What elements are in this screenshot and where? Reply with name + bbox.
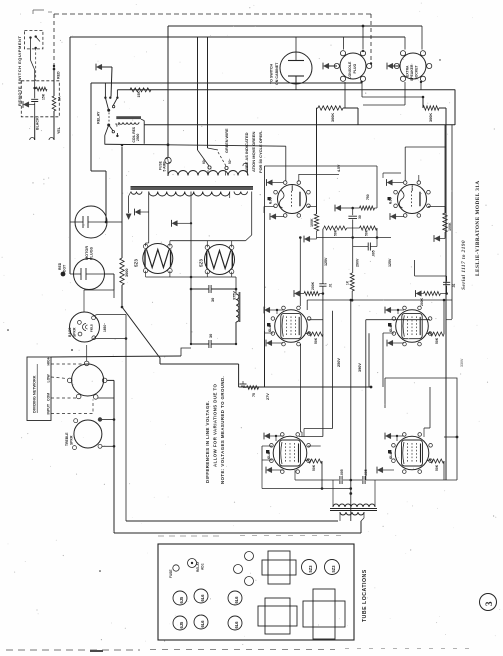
wire drop x197: [197, 37, 199, 150]
T1 5V lead down-arrow: [128, 196, 130, 213]
transformer T1 secondary: [149, 192, 230, 197]
wire bus x168: [167, 26, 169, 157]
wire y237 run: [317, 237, 392, 239]
coupling caps .005: [295, 479, 339, 481]
tube V3 6J5: [278, 185, 307, 214]
wire diagonal to y364: [122, 307, 160, 364]
scan mark top ticks: [33, 10, 44, 14]
socket 5Z3 B: [325, 560, 340, 575]
svg-text:30: 30: [209, 334, 213, 338]
remote switch contacts: [29, 36, 31, 38]
svg-text:50K: 50K: [314, 337, 318, 344]
svg-text:NOTE: VOLTAGES MEASURED TO GRO: NOTE: VOLTAGES MEASURED TO GROUND.: [220, 376, 225, 484]
svg-text:5A: 5A: [58, 96, 62, 101]
wire relay to bus: [144, 124, 455, 126]
socket 6L6 B: [194, 615, 208, 629]
svg-text:750: 750: [366, 194, 370, 200]
output transformer T2 secondary: [340, 512, 364, 515]
tube V6 6L6: [396, 310, 429, 343]
dashed links to network: [51, 363, 84, 365]
svg-text:ON CABINET: ON CABINET: [275, 62, 279, 85]
svg-text:15K: 15K: [137, 91, 141, 98]
svg-text:300K: 300K: [429, 113, 433, 122]
ground in remote box: [24, 102, 29, 107]
wire x322 down: [322, 299, 324, 437]
svg-text:4.5V: 4.5V: [337, 164, 341, 172]
relay coil: [116, 116, 141, 119]
screen resistor 50K UR: [429, 332, 444, 336]
svg-text:100K: 100K: [310, 218, 314, 227]
svg-text:5Z3: 5Z3: [134, 259, 139, 267]
wire fuse drop: [105, 143, 168, 146]
grid wire LL: [304, 428, 333, 430]
svg-text:DOT: DOT: [63, 264, 67, 272]
screen resistor 50K LL: [307, 459, 322, 463]
svg-text:YEL: YEL: [57, 126, 61, 134]
svg-text:6L6: 6L6: [234, 596, 239, 604]
paper speckle noise: [162, 99, 165, 102]
svg-text:TREBLE: TREBLE: [65, 432, 69, 446]
wire plug2 to bass: [104, 273, 114, 275]
svg-text:50K: 50K: [435, 337, 439, 344]
svg-text:DIVIDING NETWORK: DIVIDING NETWORK: [33, 375, 37, 413]
socket 6L6 D: [228, 616, 242, 630]
console plug pin fills: [360, 81, 362, 83]
wire crossover top: [86, 345, 88, 361]
extra speaker socket: [400, 53, 426, 79]
wire dashed AC mains run: [54, 13, 371, 15]
resistor 15K remote: [33, 87, 36, 90]
svg-text:15K: 15K: [42, 93, 46, 100]
wire bus y37: [70, 36, 405, 38]
svg-text:HIGH: HIGH: [46, 356, 50, 365]
svg-text:5Z3: 5Z3: [308, 565, 313, 573]
svg-text:50K: 50K: [365, 229, 369, 236]
bass speaker: [70, 312, 100, 342]
6L6LR wiring: [386, 433, 391, 438]
wire y299 screen run: [307, 299, 452, 301]
svg-text:30: 30: [358, 215, 362, 219]
svg-text:RED: RED: [58, 262, 62, 270]
svg-text:CONSOLE: CONSOLE: [348, 61, 352, 79]
svg-text:3: 3: [484, 601, 494, 606]
resistor 100K right: [444, 125, 446, 213]
rectifier V1 5Z3: [143, 244, 173, 274]
scan dashes above tube box: [158, 535, 220, 537]
svg-text:ATION MOVE GREEN: ATION MOVE GREEN: [251, 132, 256, 172]
svg-text:.005: .005: [372, 250, 376, 257]
T1 primary taps: [207, 170, 209, 175]
svg-text:.005: .005: [364, 469, 368, 476]
svg-text:BASS: BASS: [68, 327, 72, 337]
svg-text:ALLOW FOR VARIATIONS DUE TO: ALLOW FOR VARIATIONS DUE TO: [213, 383, 218, 467]
ground 75 resistor: [242, 381, 244, 384]
svg-text:RELAY: RELAY: [196, 561, 200, 572]
tube V7 6L6: [273, 436, 307, 470]
wire x91 branch: [90, 83, 92, 171]
socket 5Z3 A: [302, 560, 317, 575]
remote network box (dashed): [21, 81, 59, 117]
wire treble to bus: [102, 445, 114, 447]
power transformer footprint: [313, 589, 335, 639]
tube locations box: [158, 544, 354, 640]
ground arrow center tap: [172, 221, 177, 226]
wire x365 down: [365, 320, 367, 480]
resistor 300K right: [423, 106, 439, 110]
transformer T1 primary: [168, 171, 248, 176]
svg-text:TO SWITCH: TO SWITCH: [270, 63, 274, 84]
svg-text:100K: 100K: [448, 222, 452, 231]
svg-text:290V: 290V: [356, 258, 360, 267]
svg-text:TUBE LOCATIONS: TUBE LOCATIONS: [362, 569, 368, 622]
svg-text:200K: 200K: [420, 297, 424, 306]
wire bottom y521: [126, 520, 338, 522]
wire y364 run: [160, 363, 239, 365]
svg-text:5Z3: 5Z3: [331, 565, 336, 573]
svg-text:27V: 27V: [266, 393, 270, 400]
svg-text:Serial 1117 to 2190: Serial 1117 to 2190: [461, 240, 467, 290]
svg-text:REMOTE SWITCH EQUIPMENT: REMOTE SWITCH EQUIPMENT: [17, 36, 22, 106]
wire crossover right: [107, 379, 114, 381]
wire bus y26: [168, 25, 422, 27]
fuse holder: [173, 565, 179, 571]
6L6LL plate wire: [308, 445, 321, 447]
socket 6J5 B: [173, 616, 187, 630]
wire hook ends: [30, 138, 35, 141]
svg-text:2500: 2500: [136, 133, 140, 141]
wire y489 run: [262, 488, 351, 490]
6L6UL wiring: [265, 307, 270, 312]
green wire switch: [198, 150, 210, 166]
grid run LL upper: [299, 436, 323, 438]
svg-text:50K: 50K: [334, 229, 338, 236]
svg-text:250V: 250V: [337, 358, 341, 367]
scan speck left: [7, 329, 9, 331]
red dot: [61, 272, 66, 277]
svg-text:LESLIE-VIBRATONE MODEL 31A: LESLIE-VIBRATONE MODEL 31A: [475, 180, 481, 276]
choke L1: [235, 289, 237, 294]
output transformer footprint: [265, 598, 290, 634]
svg-text:200K: 200K: [311, 281, 315, 290]
wire x350 down: [350, 300, 352, 521]
svg-text:FIELD: FIELD: [90, 324, 94, 332]
transformer T1 5V winding: [131, 192, 142, 195]
wire y146 run: [168, 145, 286, 146]
speaker socket pin fills: [420, 81, 422, 83]
wire plug2 right: [104, 273, 114, 275]
svg-text:5 AMP: 5 AMP: [163, 161, 167, 172]
svg-text:PLUG: PLUG: [353, 64, 357, 74]
wire relay bus y83: [91, 82, 362, 84]
svg-text:.01: .01: [329, 283, 333, 288]
scan bottom edge dashes: [6, 649, 140, 651]
wire treble top link: [87, 398, 89, 420]
wire bass bottom-right: [96, 338, 127, 340]
svg-text:5Z3: 5Z3: [199, 259, 204, 267]
treble speaker: [74, 420, 102, 448]
RC to 6L6 left: [295, 291, 300, 296]
output transformer T2 primary: [333, 504, 375, 507]
wire console right drop: [422, 97, 424, 108]
wire RED lead: [53, 68, 56, 71]
svg-text:EXTRA: EXTRA: [406, 65, 410, 77]
pilot holes: [245, 552, 254, 561]
6J5R wiring: [405, 146, 446, 148]
filter cap 30 lower: [190, 289, 192, 344]
page number 3: [480, 594, 497, 611]
svg-text:SPKR: SPKR: [70, 435, 74, 445]
wire plug1 right: [106, 221, 122, 223]
svg-text:330V: 330V: [460, 358, 464, 367]
svg-text:INPUT: INPUT: [46, 403, 50, 414]
console plug ground: [324, 63, 329, 68]
svg-text:3000: 3000: [125, 269, 129, 277]
svg-text:COIL RES: COIL RES: [132, 126, 136, 142]
wire x332 down: [332, 311, 334, 429]
6L6LL wiring: [265, 433, 270, 438]
wire BLACK lead: [34, 117, 36, 140]
wire y356 run: [51, 356, 181, 357]
svg-text:MOTOR: MOTOR: [85, 246, 89, 260]
svg-text:WIRE AS INDICATED: WIRE AS INDICATED: [244, 132, 249, 172]
svg-text:.005: .005: [340, 469, 344, 476]
svg-text:COM: COM: [46, 393, 50, 401]
svg-text:6J5: 6J5: [179, 596, 184, 604]
svg-text:BLACK: BLACK: [36, 117, 40, 130]
resistor 3000: [120, 258, 124, 285]
capacitor in remote box: [34, 88, 36, 98]
tube V4 6J5: [398, 185, 427, 214]
svg-text:50~: 50~: [228, 158, 232, 164]
choke footprint: [268, 551, 290, 584]
svg-text:125V: 125V: [388, 258, 392, 267]
resistor 50K pair: [324, 226, 347, 230]
T1 center tap: [190, 192, 192, 290]
ground arrow left-top: [97, 64, 102, 69]
svg-text:60~: 60~: [202, 158, 206, 164]
screen resistor 50K LR: [429, 459, 444, 463]
wire y348 segment: [181, 348, 191, 356]
svg-text:390V: 390V: [358, 363, 362, 372]
motor plug P1: [75, 206, 107, 238]
wire left bus x70: [69, 37, 71, 214]
relay K1 contacts: [104, 83, 106, 98]
6L6UR wiring: [386, 307, 391, 312]
resistor 5A lead: [52, 96, 56, 111]
ground arrow secondary left: [135, 209, 140, 214]
tube V8 6L6: [395, 436, 429, 470]
wire drop x207: [207, 37, 209, 148]
cathode network left: [336, 205, 341, 210]
feedback box: [385, 378, 457, 480]
svg-text:30: 30: [211, 298, 215, 302]
svg-text:GREEN WIRE: GREEN WIRE: [225, 128, 229, 153]
wire 3000 down: [121, 285, 123, 307]
svg-text:6L6: 6L6: [234, 621, 239, 629]
svg-text:RELAY: RELAY: [97, 111, 101, 124]
rectifier bottom rail: [146, 276, 232, 278]
wire bass top-right: [94, 315, 98, 317]
grid bias line: [265, 165, 378, 167]
screen resistor 50K UL: [308, 333, 310, 334]
svg-text:6L6: 6L6: [200, 594, 205, 602]
RC to 6L6 right: [415, 275, 447, 277]
wire bottom y533: [114, 532, 361, 534]
svg-text:SPEAKER: SPEAKER: [410, 64, 414, 81]
svg-text:125V: 125V: [324, 257, 328, 266]
svg-text:RED: RED: [57, 71, 61, 79]
speaker socket ground: [388, 63, 393, 68]
6L6UL plate wire: [308, 319, 323, 321]
svg-text:6J5: 6J5: [179, 621, 184, 629]
console plug wiring: [343, 37, 345, 50]
dividing network box: [27, 357, 51, 421]
svg-text:75: 75: [252, 393, 256, 397]
wire crossover lowright: [98, 397, 114, 399]
resistor 100K left: [314, 214, 318, 231]
svg-text:SOCKET: SOCKET: [415, 64, 419, 79]
socket 6L6 C: [228, 591, 242, 605]
speaker socket wiring: [421, 26, 423, 50]
wire x371 down: [368, 333, 370, 387]
resistor 300K left: [317, 107, 319, 109]
relay adj: [188, 559, 197, 568]
svg-text:ADJ.: ADJ.: [201, 563, 205, 570]
cap .005 left: [353, 246, 369, 248]
socket 6L6 A: [194, 589, 208, 603]
wire x300 down: [300, 344, 302, 432]
svg-text:DIFFERENCES IN LINE VOLTAGE.: DIFFERENCES IN LINE VOLTAGE.: [205, 400, 210, 483]
motor plug P2: [74, 259, 105, 290]
svg-text:6L6: 6L6: [200, 620, 205, 628]
resistor 15K line: [130, 88, 151, 92]
console plug socket: [340, 53, 366, 79]
svg-text:50K: 50K: [312, 464, 316, 471]
transformer T1 core: [131, 186, 254, 189]
svg-text:.01: .01: [452, 283, 456, 288]
svg-text:FOR 50 CYCLE OPER-: FOR 50 CYCLE OPER-: [258, 130, 263, 173]
fuse F1: [165, 157, 171, 163]
wire y387 run: [239, 386, 371, 388]
svg-text:50K: 50K: [435, 464, 439, 471]
svg-text:300K: 300K: [331, 113, 335, 122]
T1 right lead: [229, 192, 231, 199]
wire x414 stub: [414, 260, 416, 276]
T1 secondary left lead: [148, 192, 150, 244]
transformer T1 aux winding: [234, 192, 248, 195]
svg-text:1850~: 1850~: [103, 323, 107, 332]
svg-text:SPKR: SPKR: [73, 327, 77, 337]
socket 6J5 A: [173, 591, 187, 605]
wire left bus to plugs: [69, 214, 71, 222]
remote switch box (dashed): [24, 30, 43, 49]
tube V5 6L6: [275, 310, 308, 343]
rectifier top rail: [170, 240, 246, 242]
filter cap 30 upper: [191, 288, 209, 290]
svg-text:FUSE: FUSE: [169, 569, 173, 578]
svg-text:1K: 1K: [346, 280, 350, 285]
6L6UR plate wire: [366, 319, 430, 321]
crossover unit: [72, 364, 104, 396]
wire treble top-right: [102, 419, 114, 421]
svg-text:LOW: LOW: [46, 374, 50, 383]
output transformer T2 core: [330, 508, 377, 510]
svg-text:PLUGS: PLUGS: [90, 246, 94, 260]
wire right bus x455: [454, 90, 456, 126]
rectifier V2 5Z3: [205, 245, 235, 275]
wire relay bus y89: [117, 89, 455, 91]
cabinet switch jack: [280, 52, 312, 84]
6J5L wiring: [285, 146, 287, 181]
wire x300 grid feed: [299, 238, 301, 307]
